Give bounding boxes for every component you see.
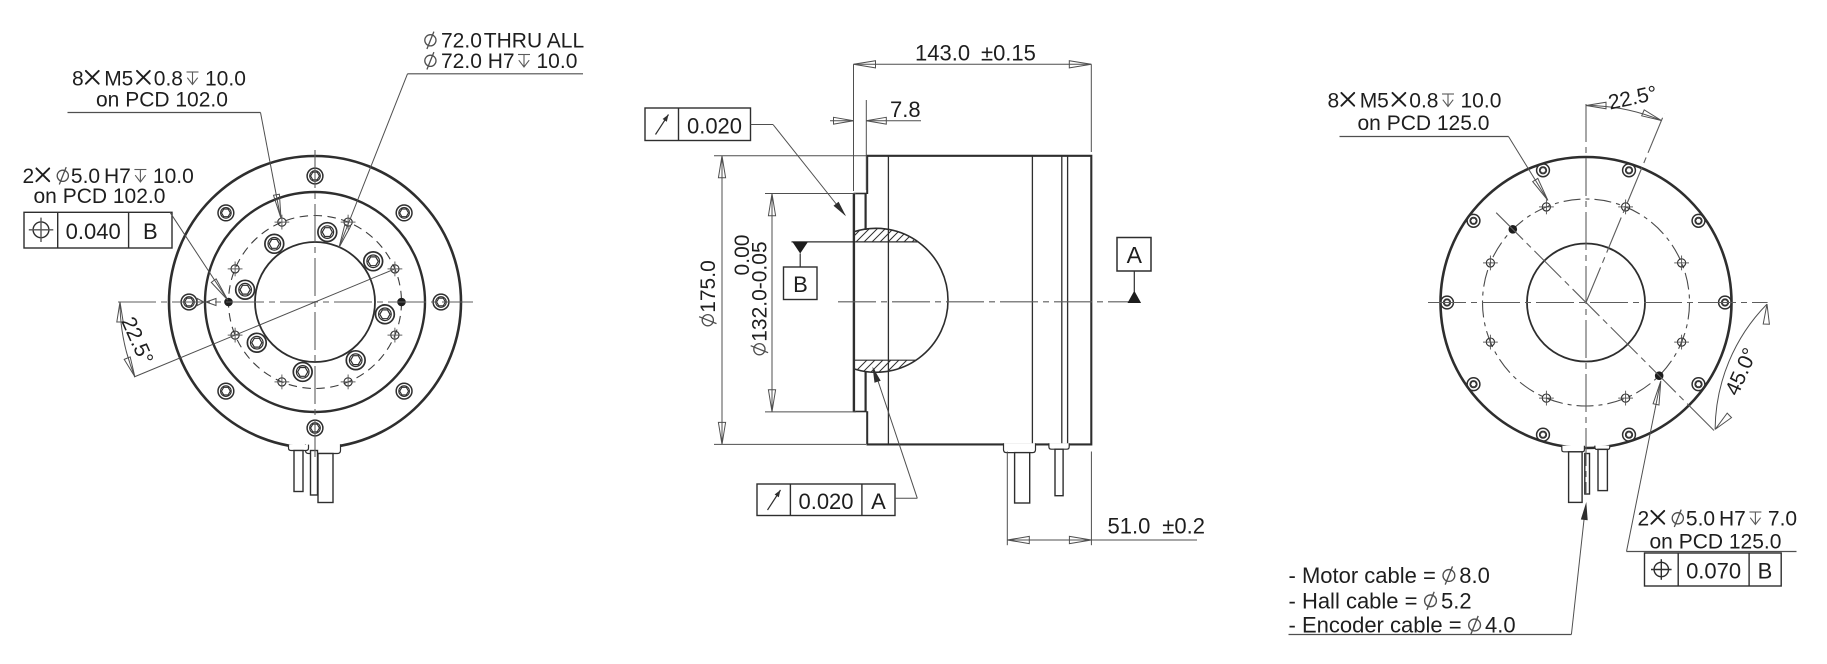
svg-text:7.8: 7.8 [890,97,921,122]
svg-text:0.040: 0.040 [66,219,121,244]
front view: flange ring circle [205,192,425,412]
svg-text:7.0: 7.0 [1768,508,1797,531]
svg-text:10.0: 10.0 [205,68,246,91]
svg-text:51.0: 51.0 [1108,514,1151,539]
front view: cable gland plates at bottom [306,444,341,453]
section view: internal vertical lines (rear cover) [1061,156,1063,445]
dimension D132.0 0.00/-0.05 [771,194,773,412]
svg-text:0.020: 0.020 [798,489,853,514]
section view: body left edge below flange [866,411,868,444]
leader from bottom FCF to rotor ring [895,497,917,499]
svg-text:M5: M5 [104,68,133,91]
rear view: 8 M5 tapped holes on PCD 125 [1678,259,1686,267]
svg-text:22.5°: 22.5° [1606,82,1659,115]
section view: cable stubs [1015,453,1030,503]
svg-text:A: A [871,489,886,514]
svg-text:A: A [1127,242,1143,268]
svg-text:0.070: 0.070 [1686,559,1741,584]
section view: internal vertical line (front cover) [887,156,889,445]
front view: 8 M5 tapped holes on PCD 102 [391,265,399,273]
leader from top FCF to flange face [751,124,774,126]
dimension D175.0 [721,156,723,445]
front view: center bore circle D72 [255,242,375,362]
label: D72.0 THRU ALL / D72.0 H7 depth 10.0 [425,32,436,49]
svg-text:B: B [143,219,158,244]
front view: horizontal centerline [118,301,473,303]
svg-text:132.0-0.05: 132.0-0.05 [749,241,772,341]
svg-text:- Hall cable =: - Hall cable = [1289,588,1418,613]
section view: main body outline (left side open) [867,156,1092,445]
svg-text:B: B [793,272,808,297]
FCF position 0.070 B (rear) [1645,553,1782,586]
front view: cable stubs [294,451,303,492]
rear view: cable gland plates [1562,446,1585,452]
rear view: 22.5deg dimension arc top [1586,106,1661,121]
rear view: 45deg centerline through dowels [1496,213,1716,433]
svg-text:H7: H7 [1719,508,1746,531]
svg-text:175.0: 175.0 [697,260,720,313]
svg-text:8.0: 8.0 [1459,563,1490,588]
leader to M5 hole [261,113,281,216]
svg-text:- Encoder cable =: - Encoder cable = [1289,613,1462,638]
open bowtie arrows on ring circle [197,299,204,306]
svg-text:8: 8 [1328,90,1340,113]
section view: internal vertical line (stator rear) [1031,156,1033,445]
svg-text:22.5°: 22.5° [116,314,157,368]
svg-text:on PCD 102.0: on PCD 102.0 [96,89,228,112]
svg-text:10.0: 10.0 [537,50,578,73]
svg-text:4.0: 4.0 [1485,613,1516,638]
front view: bolt circle PCD 102 (dashed) [229,216,402,389]
svg-text:±0.2: ±0.2 [1162,514,1205,539]
datum A triangle and box [1117,238,1151,272]
position symbol [33,222,49,238]
section view: bore walls D72 [792,241,919,243]
front view: 22.5deg dimension arc with arrows [120,302,135,377]
svg-text:on PCD 125.0: on PCD 125.0 [1650,531,1782,554]
section view: horizontal centerline [838,301,1140,303]
svg-text:0.020: 0.020 [687,113,742,138]
svg-text:on PCD 102.0: on PCD 102.0 [34,185,166,208]
front view: 2 dowel pin holes D5 on PCD 102 [397,298,406,307]
datum B triangle and box [793,242,808,254]
section view: body left edge above flange [866,156,868,194]
FCF circular runout 0.020 A (bottom) [757,484,895,516]
svg-text:72.0 H7: 72.0 H7 [441,50,515,73]
svg-text:45.0°: 45.0° [1721,345,1762,399]
svg-text:8: 8 [72,68,84,91]
rear view: horizontal centerline [1428,302,1768,304]
rear view: bolt circle PCD 125 (dash-dot) [1483,199,1690,406]
front view: vertical centerline [314,150,316,457]
runout arrow symbol [656,115,669,135]
leader to bore circle [340,74,408,246]
front view: outer housing circle D175 [169,156,461,448]
front view: 22.5deg angled line through dowel holes [134,269,394,377]
leader from FCF to dowel hole [170,212,227,299]
rear view: outer circle D175 [1441,157,1732,448]
svg-text:0.8: 0.8 [1409,90,1438,113]
leader to encoder cable [1571,508,1585,635]
svg-text:2: 2 [1638,508,1650,531]
section view: flange right face visible segments [864,193,866,230]
feature control frame: position 0.040 B [24,212,172,248]
svg-text:- Motor cable =: - Motor cable = [1289,563,1436,588]
svg-text:on PCD 125.0: on PCD 125.0 [1358,112,1490,135]
rear view: cable stubs [1569,452,1583,503]
svg-text:B: B [1758,559,1773,584]
svg-text:143.0: 143.0 [915,41,970,66]
FCF circular runout 0.020 (top) [645,108,751,141]
dimension 7.8 [865,100,867,190]
front view: 8 outer hex screws [433,294,449,310]
leader to dowel hole (rear) [1627,383,1661,552]
section view: cable glands bottom [1004,443,1036,452]
rear view: vertical centerline [1585,104,1587,494]
svg-text:2: 2 [23,165,35,188]
rear view: bore circle D72 [1527,244,1645,362]
rear view: 10 outer hex screws [1719,296,1732,309]
dimension 143.0 +-0.15 [853,64,855,191]
rear view: 67.5deg line to M5 hole [1586,113,1665,302]
svg-text:M5: M5 [1360,90,1389,113]
svg-text:5.2: 5.2 [1441,588,1472,613]
front view: 8 inner hex socket screws [364,252,383,271]
section view: rotor flange plate D132 x 7.8 [853,193,855,411]
rear view: 45.0deg dimension arc right [1715,304,1767,429]
svg-text:±0.15: ±0.15 [981,41,1036,66]
dimension 51.0 +-0.2 [1006,452,1008,546]
section view: rotor hub dome arc [855,228,948,372]
svg-text:10.0: 10.0 [1461,90,1502,113]
rear view: 2 dowel holes D5 on PCD 125 at 45deg [1509,225,1518,234]
svg-text:5.0: 5.0 [1686,508,1715,531]
svg-text:0.8: 0.8 [154,68,183,91]
